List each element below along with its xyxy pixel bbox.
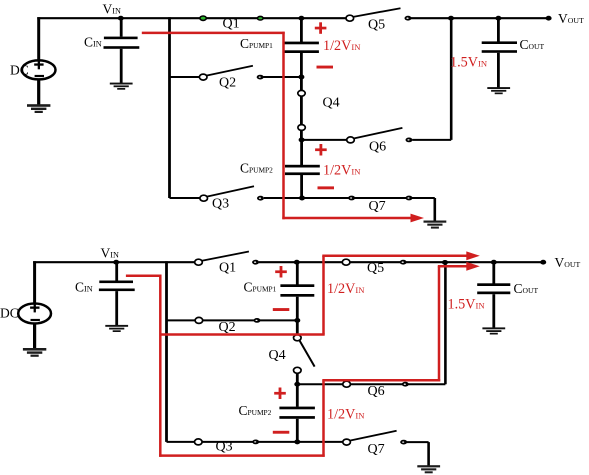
node Vout xyxy=(546,16,552,21)
svg-text:VOUT: VOUT xyxy=(555,255,581,270)
wire: red path left vertical (bottom circuit) xyxy=(159,275,162,457)
node: Q3/Q7 row at pump rail xyxy=(299,196,305,201)
switch Q3 (closed, bottom circuit) xyxy=(195,439,260,455)
label 1/2Vin (red, Cpump2, bottom circuit) xyxy=(327,406,365,422)
wire: Cin top lead xyxy=(120,18,123,36)
node Vin (bottom circuit) xyxy=(113,260,119,265)
wire: Cout top lead (bottom circuit) xyxy=(492,262,495,285)
svg-text:Q5: Q5 xyxy=(367,261,384,276)
label 1/2Vin (red, Cpump1) xyxy=(323,38,361,54)
wire: drop to ground right of Q7 (bottom circuit) xyxy=(427,442,430,466)
wire: pump rail Q6 node to Cpump2 xyxy=(300,140,303,166)
svg-text:COUT: COUT xyxy=(520,37,545,52)
label Vin (bottom circuit) xyxy=(101,246,119,261)
svg-text:CPUMP1: CPUMP1 xyxy=(244,280,277,295)
wire: Cout top lead xyxy=(497,18,500,42)
wire: Cpump1 top lead (bottom circuit) xyxy=(296,262,299,285)
wire: red path Q3 riser (bottom circuit) xyxy=(322,380,325,457)
switch Q6 (open) xyxy=(347,128,413,155)
svg-text:Q1: Q1 xyxy=(223,17,240,32)
node: top rail / Cout xyxy=(495,16,501,21)
capacitor Cout xyxy=(482,37,545,53)
wire: Cpump2 bottom lead to Q3 row (bottom circuit) xyxy=(296,419,299,442)
capacitor Cpump2 (bottom circuit) xyxy=(239,403,315,419)
wire: left rail (bottom circuit) xyxy=(165,261,168,442)
wire: red path to Vout arrow 2 (bottom circuit) xyxy=(438,262,480,271)
switch Q5 (closed, bottom circuit) xyxy=(342,259,406,276)
wire: red path from Cin (bottom circuit) xyxy=(126,275,162,278)
svg-text:1/2VIN: 1/2VIN xyxy=(327,406,365,422)
svg-text:1/2VIN: 1/2VIN xyxy=(323,38,361,54)
node Vin xyxy=(118,16,124,21)
label Vin xyxy=(103,2,121,17)
node: top rail / Q6 riser (bottom circuit) xyxy=(442,260,448,265)
switch Q2 (open) xyxy=(199,66,263,91)
svg-text:CIN: CIN xyxy=(75,280,93,295)
capacitor Cin (bottom circuit) xyxy=(75,280,135,295)
switch Q3 (open) xyxy=(200,186,264,211)
switch Q7 (open, bottom circuit) xyxy=(343,431,407,457)
ground: below DC source (bottom circuit) xyxy=(23,348,46,357)
svg-text:CPUMP2: CPUMP2 xyxy=(239,403,272,418)
wire: Cpump1 top lead xyxy=(300,18,303,42)
svg-text:CPUMP1: CPUMP1 xyxy=(240,36,273,51)
wire: Q2 row (closed, bottom circuit) xyxy=(167,319,298,321)
wire: left rail from top rail down to Q3 row xyxy=(168,17,171,198)
DC source V1 (bottom circuit) xyxy=(0,303,51,324)
switch Q6 (closed, bottom circuit) xyxy=(343,381,409,399)
label 1.5Vin (red) xyxy=(450,54,488,70)
label 1/2Vin (red, Cpump2) xyxy=(323,163,361,179)
svg-text:Q4: Q4 xyxy=(269,348,286,363)
label 1/2Vin (red, Cpump1, bottom circuit) xyxy=(327,281,365,297)
label - polarity Cpump1 (red) xyxy=(317,66,334,69)
switch Q2 (closed, bottom circuit) xyxy=(195,317,260,335)
svg-text:Q4: Q4 xyxy=(323,96,340,111)
wire: Cin bottom lead (bottom circuit) xyxy=(115,291,118,325)
svg-text:Q2: Q2 xyxy=(219,320,236,335)
wire: Cin bottom lead xyxy=(120,49,123,83)
label - polarity Cpump2 (red) xyxy=(318,186,335,189)
wire: Q6 row from pump rail to riser xyxy=(302,139,347,141)
label - polarity Cpump1 (red, bottom circuit) xyxy=(273,308,290,311)
wire: Cpump1 bottom lead to Q2 node xyxy=(300,53,303,77)
wire: red current path to ground (arrow) xyxy=(282,214,424,223)
ground: below Cin xyxy=(110,83,133,90)
node: top rail / Cpump1 (bottom circuit) xyxy=(294,260,300,265)
ground: below Cout xyxy=(487,87,510,94)
capacitor Cout (bottom circuit) xyxy=(477,281,538,296)
wire: Cpump2 bottom lead to Q7 row xyxy=(300,175,303,198)
wire: Cout bottom lead (bottom circuit) xyxy=(492,294,495,328)
wire: DC source bottom lead (bottom circuit) xyxy=(33,323,36,349)
label + polarity Cpump1 (red) xyxy=(315,22,327,34)
svg-text:COUT: COUT xyxy=(514,281,539,296)
wire: red path Q2 row horizontal (bottom circuit) xyxy=(160,333,324,336)
switch Q1 (closed, green contacts) xyxy=(200,16,263,32)
svg-text:CIN: CIN xyxy=(84,35,102,50)
svg-text:Q1: Q1 xyxy=(219,261,236,276)
svg-text:CPUMP2: CPUMP2 xyxy=(240,161,273,176)
svg-text:1.5VIN: 1.5VIN xyxy=(450,54,488,70)
svg-text:Q7: Q7 xyxy=(369,199,386,214)
node: Q6 row / pump rail (bottom circuit) xyxy=(294,382,300,387)
wire: DC source bottom lead xyxy=(37,79,40,105)
node: top rail / Cout (bottom circuit) xyxy=(491,260,497,265)
label + polarity Cpump1 (red, bottom circuit) xyxy=(275,266,287,278)
label Vout (bottom circuit) xyxy=(555,255,581,270)
wire: riser from Q6 row up to top rail xyxy=(450,18,453,140)
node: Q6 row / pump rail xyxy=(299,137,305,142)
wire: Cin top lead (bottom circuit) xyxy=(115,262,118,281)
svg-text:Q6: Q6 xyxy=(369,140,386,155)
wire: Q3 row left segment xyxy=(170,197,201,199)
wire: red path Q3 row horizontal (bottom circuit) xyxy=(159,454,325,457)
wire: Cout bottom lead xyxy=(497,53,500,88)
wire: riser from Q6 row up to top rail (bottom circuit) xyxy=(444,262,447,384)
wire: top rail from Q1 right terminal to Vout (through closed Q5) xyxy=(259,261,543,263)
ground: below DC source xyxy=(27,104,50,113)
node: Q3 row / pump rail (bottom circuit) xyxy=(294,439,300,444)
wire: Q3 row right segment to pump rail xyxy=(264,197,303,199)
node: top rail / Q6 riser xyxy=(448,16,454,21)
svg-text:Q3: Q3 xyxy=(216,440,233,455)
ground: right of Q7 xyxy=(424,221,447,229)
wire: DC source top lead xyxy=(37,17,40,61)
ground: right of Q7 (bottom circuit) xyxy=(417,465,440,473)
node: Q2 row / pump rail xyxy=(298,75,304,80)
wire: Q3 row (closed, bottom circuit) xyxy=(167,441,344,443)
wire: Cpump1 bottom lead to Q2 row (bottom circuit) xyxy=(296,297,299,321)
wire: Q7 row from pump rail to ground drop xyxy=(302,197,435,199)
wire: Vin top rail from DC source to Q1 left terminal xyxy=(33,261,195,263)
label Vout xyxy=(558,11,584,26)
capacitor Cin xyxy=(84,35,139,50)
node Vout (bottom circuit) xyxy=(540,260,546,265)
label + polarity Cpump2 (red) xyxy=(315,144,327,156)
wire: red current path vertical xyxy=(282,32,285,220)
wire: Q7 right terminal to ground drop (bottom circuit) xyxy=(407,441,429,443)
capacitor Cpump2 xyxy=(240,161,320,176)
svg-text:1.5VIN: 1.5VIN xyxy=(448,297,486,313)
ground: below Cout (bottom circuit) xyxy=(482,327,505,334)
node: Q2 row / pump rail (bottom circuit) xyxy=(294,318,300,323)
svg-text:VIN: VIN xyxy=(103,2,121,17)
wire: pump rail Q4 to Cpump2 (bottom circuit) xyxy=(296,373,299,407)
label 1.5Vin (red, bottom circuit) xyxy=(448,297,486,313)
DC source V1 xyxy=(10,60,56,80)
svg-text:Q5: Q5 xyxy=(368,18,385,33)
svg-text:DC: DC xyxy=(0,306,19,321)
wire: red path to Vout arrow 1 (bottom circuit) xyxy=(322,251,480,260)
wire: red path Q6 riser up to output (bottom circuit) xyxy=(438,266,441,381)
wire: red current path horizontal from Cin xyxy=(142,32,285,35)
switch Q4 (closed) xyxy=(298,90,340,130)
switch Q5 (open) xyxy=(346,8,412,32)
wire: Q2 row left segment xyxy=(170,76,200,78)
ground: below Cin (bottom circuit) xyxy=(105,325,128,332)
wire: red path Q2 riser up to output (bottom circuit) xyxy=(322,256,325,335)
capacitor Cpump1 xyxy=(240,36,319,53)
wire: top rail from Q5 right terminal to Vout xyxy=(408,17,549,19)
switch Q4 (open, bottom circuit) xyxy=(269,335,315,374)
wire: Q7 row drop to ground xyxy=(433,198,436,221)
svg-text:VOUT: VOUT xyxy=(558,11,584,26)
wire: Vin top rail from DC source to Q5 left terminal xyxy=(37,17,350,19)
svg-text:Q2: Q2 xyxy=(219,76,236,91)
svg-text:Q3: Q3 xyxy=(212,197,229,212)
wire: Q2 row right segment to pump rail xyxy=(264,76,302,78)
svg-text:VIN: VIN xyxy=(101,246,119,261)
switch Q1 (open, bottom circuit) xyxy=(195,252,259,276)
wire: pump rail Q2 node to Q6 node (through Q4) xyxy=(300,77,303,140)
node: pump rail at top wire xyxy=(298,16,304,21)
svg-text:DC: DC xyxy=(10,63,29,78)
svg-text:1/2VIN: 1/2VIN xyxy=(323,163,361,179)
wire: red path Q6 row horizontal (bottom circuit) xyxy=(322,379,440,382)
switch Q7 (closed) xyxy=(348,196,412,214)
svg-text:Q6: Q6 xyxy=(368,384,385,399)
wire: Q6 right terminal to riser xyxy=(412,139,451,141)
wire: Q6 row (closed, bottom circuit) xyxy=(297,383,445,385)
wire: pump rail Q2 node to Q4 (bottom circuit) xyxy=(296,320,299,335)
wire: DC source top lead (bottom circuit) xyxy=(33,261,36,304)
capacitor Cpump1 (bottom circuit) xyxy=(244,280,315,297)
label + polarity Cpump2 (red, bottom circuit) xyxy=(274,388,286,400)
svg-text:Q7: Q7 xyxy=(368,442,385,457)
label - polarity Cpump2 (red, bottom circuit) xyxy=(273,431,290,434)
svg-text:1/2VIN: 1/2VIN xyxy=(327,281,365,297)
